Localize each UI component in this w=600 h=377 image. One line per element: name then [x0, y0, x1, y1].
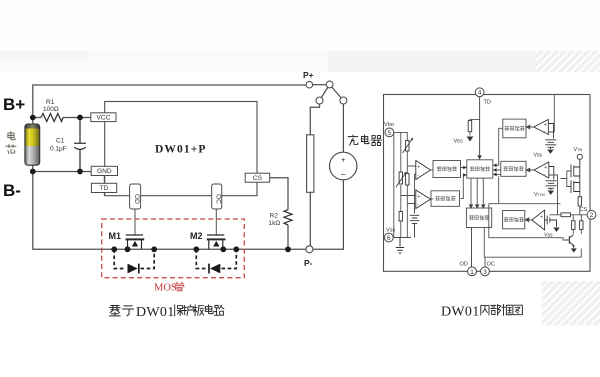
svg-text:-: - [417, 172, 419, 178]
varistor VR1 [403, 132, 413, 173]
wire top rail B+ to P+ [33, 85, 306, 115]
junction dot rail 236.3 [233, 246, 239, 252]
ref battery B2 [534, 167, 557, 198]
reference battery left [410, 205, 419, 238]
charger source [330, 152, 357, 180]
svg-text:B-: B- [3, 181, 21, 200]
wire load to P- [309, 192, 311, 246]
svg-text:Vbo: Vbo [384, 122, 394, 128]
switch node b [316, 97, 323, 104]
pin OD [130, 184, 141, 209]
svg-text:DW01: DW01 [441, 305, 480, 320]
svg-text:C1: C1 [56, 138, 65, 145]
pin 6 [384, 228, 395, 242]
wire CS to R2 [270, 178, 288, 210]
svg-text:OC: OC [487, 262, 495, 268]
svg-text:OD: OD [460, 262, 468, 268]
op-amp B2 overcurrent [526, 162, 549, 178]
pin CS [245, 173, 270, 182]
block charge detect [503, 211, 525, 229]
resistor RA [406, 173, 409, 237]
block control logic [466, 208, 491, 228]
wire boxB to delay [461, 173, 467, 198]
pin 5 [384, 122, 394, 137]
svg-text:CS: CS [580, 207, 588, 213]
pin OC [212, 184, 222, 209]
IC U1 DW01+P outline [105, 102, 257, 196]
svg-text:Vss: Vss [544, 233, 553, 239]
wire boxA to delay [461, 166, 467, 170]
resistor R1 [41, 99, 63, 122]
wire OC to M2 gate [215, 209, 217, 235]
pin GND [91, 166, 117, 175]
op-amp B1 short [526, 120, 548, 135]
transistor Q1 npn [567, 235, 575, 247]
hatch band bottom right [542, 281, 600, 325]
svg-text:3: 3 [483, 269, 487, 276]
hatch band top right [535, 51, 600, 72]
wire TD pin4 to delay [477, 97, 481, 160]
svg-text:+: + [417, 194, 420, 200]
wire gates [561, 171, 572, 187]
wire R2 to bottom rail [287, 225, 289, 249]
svg-text:R1: R1 [46, 99, 55, 106]
svg-text:0.1μF: 0.1μF [50, 145, 67, 152]
svg-text:−: − [341, 170, 346, 180]
wire B- rail [33, 171, 91, 173]
resistor RD horizontal [561, 213, 571, 217]
terminal Vtb [577, 154, 582, 159]
wire logic to pin1 [471, 228, 473, 268]
ground Q1 [571, 246, 577, 253]
svg-text:+: + [544, 122, 547, 128]
wire logic to pin3 net [484, 228, 581, 268]
switch node c [340, 97, 347, 104]
svg-text:5: 5 [388, 130, 392, 137]
transistor QP1 [571, 159, 580, 177]
wire switch diagonals [320, 85, 344, 101]
wire B+ rail battery to VCC [33, 117, 91, 119]
pin 3 [481, 262, 495, 276]
junction dot rail 196.3 [193, 246, 199, 252]
switch node a [326, 81, 333, 88]
battery cell [25, 124, 40, 165]
svg-text:MOS: MOS [154, 283, 177, 294]
block overcharge detect [431, 191, 460, 207]
capacitor C1 [50, 118, 86, 172]
svg-text:TD: TD [484, 100, 491, 106]
load resistor bar [307, 135, 314, 193]
label dianxin cell [6, 132, 16, 154]
junction dot rail 114.2 [111, 246, 117, 252]
svg-text:+: + [341, 156, 346, 165]
IC DW01 internal outline [384, 95, 591, 272]
svg-text:4: 4 [478, 90, 482, 97]
body diode D2 loop [196, 249, 236, 273]
caption right [441, 305, 522, 320]
wire B2 inputs to CS [549, 175, 558, 215]
junction dot (80,117.5) [77, 115, 83, 121]
wire load branch [310, 104, 319, 135]
svg-text:-: - [544, 129, 546, 135]
svg-text:-: - [544, 172, 546, 178]
svg-text:6: 6 [387, 235, 391, 242]
resistor RF [580, 215, 583, 234]
pin VCC [91, 113, 116, 122]
wire switch link [313, 84, 327, 86]
junction dot R2 bottom [285, 246, 291, 252]
terminal P- [304, 246, 313, 268]
svg-text:-: - [540, 223, 542, 229]
svg-text:1: 1 [470, 269, 474, 276]
op-amp B3 charge [525, 210, 545, 230]
svg-text:1kΩ: 1kΩ [269, 220, 281, 227]
wire charger to bottom [313, 180, 344, 250]
svg-text:M2: M2 [190, 231, 203, 241]
wire charge detect loop [489, 204, 567, 240]
pin 4 [475, 88, 491, 106]
wire battery terminals [32, 118, 34, 172]
label DW01+P [155, 144, 206, 156]
svg-text:M1: M1 [109, 231, 122, 241]
pin 1 [460, 262, 477, 276]
svg-text:+: + [544, 165, 547, 171]
wire B1 top [549, 95, 555, 133]
resistor RC [578, 192, 581, 216]
wire overcurrent box down [498, 176, 500, 203]
junction dot (80,171.5) [77, 169, 83, 175]
wire charger branch [342, 104, 344, 152]
svg-text:OD: OD [133, 194, 140, 204]
terminal P+ [303, 70, 314, 88]
svg-text:GND: GND [97, 168, 112, 175]
block overdischarge detect [433, 161, 461, 178]
svg-text:P+: P+ [303, 70, 314, 80]
svg-text:B+: B+ [3, 95, 25, 114]
transistor M1 [109, 231, 145, 249]
resistor RTD and ground [454, 119, 480, 144]
svg-text:R2: R2 [270, 213, 279, 220]
body diode D1 loop [114, 249, 154, 273]
svg-text:TD: TD [100, 185, 109, 192]
wire short detect to delay [493, 128, 503, 167]
label Vtb [574, 147, 583, 153]
pin 2 [580, 207, 596, 219]
svg-text:-: - [417, 201, 419, 207]
label MOS guan [154, 282, 184, 294]
svg-text:P-: P- [304, 258, 313, 268]
mos dashed box [102, 219, 245, 278]
op-amp A1 [407, 161, 430, 205]
resistor RB [399, 212, 402, 238]
svg-text:Vss: Vss [534, 153, 543, 159]
block delay circuit [467, 160, 493, 178]
ref battery B3 [544, 216, 560, 239]
junction dot (32.8,171.5) [30, 169, 36, 175]
op-amp A2 [401, 190, 431, 209]
ref battery B1 [534, 124, 557, 159]
wire A2 to box [431, 198, 434, 200]
transistor M2 [190, 231, 226, 249]
svg-text:DW01+P: DW01+P [155, 144, 206, 156]
wire OD to M1 gate [134, 209, 136, 235]
block short detect [503, 119, 526, 138]
junction dot rail 127.5 [125, 246, 131, 252]
label B+ [3, 95, 25, 114]
junction dot rail 223.3 [220, 246, 226, 252]
wire GND to TD [103, 176, 105, 196]
ground pin6 [396, 238, 404, 254]
label B- [3, 181, 21, 200]
pin TD [91, 183, 116, 192]
wire CS line [550, 214, 588, 216]
wires delay to logic [469, 178, 485, 208]
wire overcurrent to delay [493, 168, 501, 176]
varistor VR2 [396, 132, 406, 211]
junction dot rail 154.2 [151, 246, 157, 252]
wire B- down to bottom rail [33, 172, 306, 250]
block overcurrent detect [501, 161, 526, 176]
svg-text:+: + [417, 165, 420, 171]
resistor RE [572, 215, 575, 234]
svg-text:OC: OC [214, 194, 221, 204]
label charger [348, 135, 382, 146]
svg-text:2: 2 [590, 212, 594, 219]
junction dot (32.8,117.5) [30, 115, 36, 121]
wire A1 to box [431, 169, 434, 171]
caption left [110, 305, 224, 320]
svg-text:DW01: DW01 [136, 305, 175, 320]
svg-text:100Ω: 100Ω [43, 106, 59, 113]
transistor QP2 [571, 176, 580, 193]
svg-text:VCC: VCC [96, 115, 110, 122]
resistor R2 [269, 210, 293, 227]
svg-text:CS: CS [253, 175, 263, 182]
wire pin5 bus [394, 132, 411, 237]
svg-text:+: + [540, 214, 543, 220]
